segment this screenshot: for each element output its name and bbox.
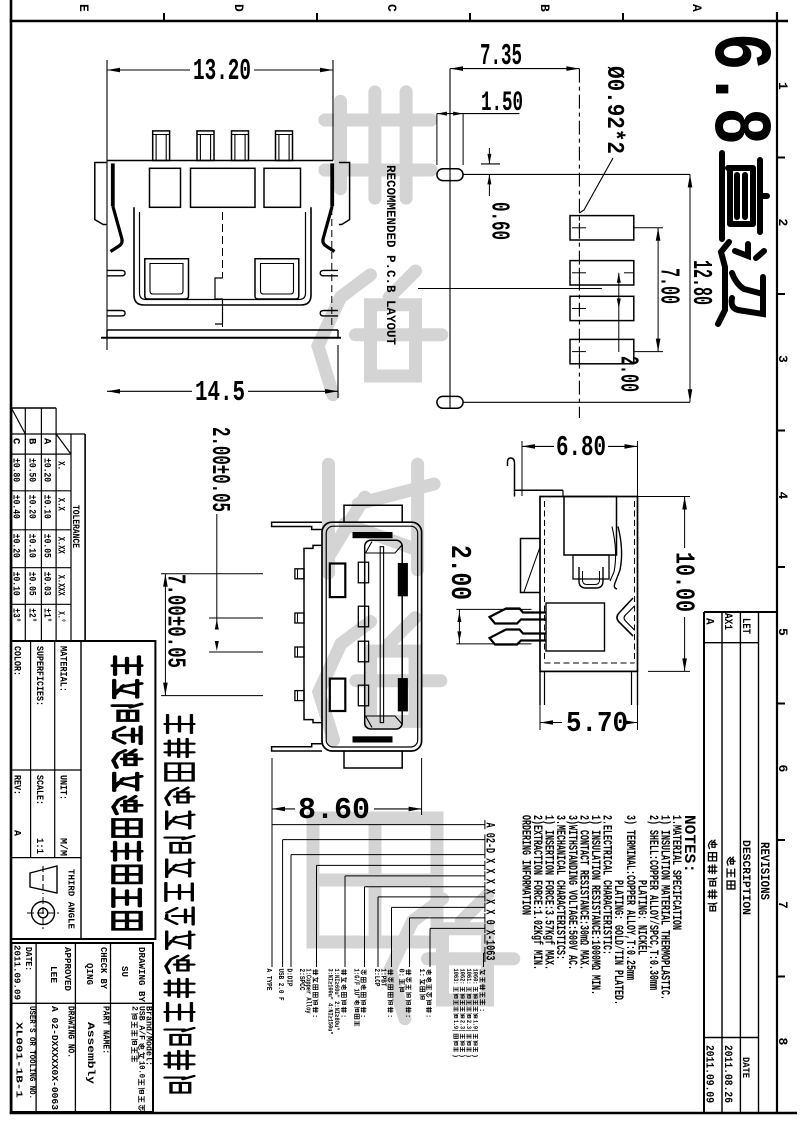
- svg-text:5.70: 5.70: [566, 707, 628, 740]
- svg-text:3:NI≥100u" 4:NI≥150u": 3:NI≥100u" 4:NI≥150u": [327, 969, 334, 1035]
- svg-text:C: C: [10, 438, 22, 445]
- svg-text:LET: LET: [739, 618, 751, 634]
- svg-text:E: E: [76, 4, 91, 12]
- svg-text:DATE:: DATE:: [23, 947, 34, 971]
- svg-text:A: A: [689, 4, 704, 12]
- svg-text:SCALE:: SCALE:: [33, 775, 44, 805]
- svg-text:±3°: ±3°: [10, 608, 22, 622]
- zone ticks right: [777, 157, 785, 159]
- tolerance table grid: [11, 408, 85, 641]
- front view dim 13.20: [107, 69, 190, 71]
- svg-text:2011.08.26: 2011.08.26: [721, 1045, 733, 1103]
- svg-text:DRAWING NO.: DRAWING NO.: [66, 1006, 77, 1058]
- revisions table frame: [704, 611, 777, 613]
- svg-text:CHECK BY: CHECK BY: [98, 947, 109, 989]
- svg-text:2.00: 2.00: [614, 356, 644, 392]
- top view tongue: [365, 540, 403, 729]
- front view thick left edge latch spring: [111, 163, 115, 206]
- svg-text:Ø0.92*2: Ø0.92*2: [600, 66, 627, 154]
- front view bottom bar: [107, 329, 338, 331]
- svg-text:DATE: DATE: [739, 1057, 751, 1078]
- svg-text:±0.10: ±0.10: [26, 534, 37, 558]
- svg-text:±1°: ±1°: [41, 608, 53, 622]
- svg-text:A: A: [11, 830, 22, 836]
- revisions header divider: [704, 642, 759, 644]
- ordering label duanzi diandu: [361, 970, 366, 975]
- front view thick right edge latch spring: [330, 163, 334, 206]
- svg-text:TOLERANCE: TOLERANCE: [69, 505, 80, 548]
- front view top band windows: [150, 168, 181, 207]
- svg-text:1:G/F 1U": 1:G/F 1U": [352, 969, 360, 999]
- title glyph zhi: [722, 153, 767, 239]
- svg-text:2011.09.09: 2011.09.09: [703, 1045, 715, 1103]
- side view lower block: [546, 603, 605, 651]
- revisions date divider: [704, 1037, 759, 1039]
- top view tongue ridge: [380, 547, 383, 723]
- front view contact window right: [255, 259, 299, 299]
- svg-text:USER'S OR TOOLING NO.: USER'S OR TOOLING NO.: [27, 1006, 37, 1099]
- side view dim 6.80: [522, 445, 554, 447]
- pcb line from oval top: [463, 173, 690, 175]
- revisions desc chongxin xiuding tumian: [708, 840, 716, 848]
- svg-text:2.00: 2.00: [443, 545, 476, 600]
- svg-text:±0.20: ±0.20: [26, 495, 37, 519]
- top view left contact windows: [330, 564, 346, 598]
- ordering label jiaoxin yanse: [406, 970, 411, 975]
- svg-text:2:SPCC: 2:SPCC: [297, 969, 305, 991]
- svg-text:PART NAME:: PART NAME:: [101, 1006, 112, 1054]
- svg-text:12.80: 12.80: [685, 260, 715, 305]
- ordering underlines: [484, 820, 486, 829]
- svg-text:X.X: X.X: [55, 498, 66, 511]
- svg-text:XL001-1B-1: XL001-1B-1: [14, 1022, 25, 1098]
- top view right black contacts: [398, 564, 407, 596]
- pcb dashed centerline: [578, 69, 580, 418]
- front view contact window left: [145, 259, 189, 299]
- svg-text:6.8: 6.8: [691, 33, 785, 145]
- svg-text::: :: [310, 1014, 318, 1018]
- side view body outline: [540, 497, 638, 672]
- svg-text:2: 2: [775, 219, 790, 227]
- front view dim 14.5: [107, 390, 192, 392]
- side view lower spring hook: [617, 598, 633, 636]
- svg-text:X.: X.: [55, 461, 66, 470]
- svg-text:A 02-DXXXXX0X-0063: A 02-DXXXXX0X-0063: [49, 1006, 60, 1110]
- svg-text:±0.10: ±0.10: [41, 495, 52, 519]
- svg-text:1:1: 1:1: [33, 838, 44, 854]
- svg-text:8: 8: [775, 1038, 790, 1046]
- side view hidden dashed cavity: [544, 501, 546, 663]
- svg-text:A: A: [41, 438, 53, 445]
- svg-text:REV:: REV:: [11, 775, 22, 795]
- svg-text:AX1: AX1: [721, 613, 733, 630]
- pcb dim 1.50: [437, 113, 520, 115]
- svg-text:C: C: [384, 4, 399, 12]
- svg-text:10.00: 10.00: [668, 552, 698, 612]
- border bottom: [10, 1112, 797, 1115]
- svg-text::: :: [424, 1014, 432, 1018]
- top view crimp bar lower: [353, 737, 392, 742]
- top view pin stubs: [295, 569, 304, 579]
- top view bent leg upper: [272, 522, 323, 529]
- front view extension lines: [106, 60, 108, 350]
- pcb oval hole bottom: [437, 396, 463, 408]
- company name shenzhen xingbaochuang: [113, 657, 142, 675]
- svg-text:A: A: [703, 618, 715, 625]
- svg-text:X.°: X.°: [55, 611, 67, 622]
- svg-text:14.5: 14.5: [195, 376, 245, 409]
- title block bottom box: [12, 943, 154, 1112]
- svg-text:A TYPE: A TYPE: [264, 969, 272, 991]
- svg-text:DESCRIPTION: DESCRIPTION: [739, 840, 751, 915]
- side view diagonal spring: [614, 527, 621, 590]
- title glyph bian: [718, 242, 764, 324]
- svg-text:1063:: 1063:: [452, 969, 459, 985]
- svg-text:1:: 1:: [417, 969, 425, 977]
- front view pins: [153, 131, 170, 161]
- top view hold-down tab lower: [344, 751, 402, 768]
- pcb oval hole top: [437, 169, 463, 181]
- svg-text::: :: [385, 1014, 393, 1018]
- zone ticks top: [163, 13, 165, 21]
- svg-text:B: B: [26, 438, 38, 445]
- svg-text:SU: SU: [119, 966, 130, 977]
- third angle cone symbol: [30, 866, 57, 893]
- pcb pads: [570, 216, 634, 240]
- svg-text:D: D: [231, 4, 246, 12]
- side view dim 5.70: [539, 705, 541, 730]
- svg-text:±0.03: ±0.03: [41, 572, 52, 596]
- svg-text:±0.10: ±0.10: [10, 572, 21, 596]
- svg-text:4: 4: [775, 492, 790, 500]
- svg-text:B: B: [537, 4, 552, 12]
- top view outer shell: [322, 522, 422, 751]
- svg-text:7.00±0.05: 7.00±0.05: [161, 574, 191, 668]
- svg-text:3: 3: [775, 355, 790, 363]
- svg-text:): ): [452, 1054, 459, 1058]
- svg-text:REVISIONS: REVISIONS: [757, 842, 771, 900]
- side view hold-down tab: [508, 458, 541, 490]
- svg-text::: :: [403, 1014, 411, 1018]
- top view plastic body: [304, 545, 322, 722]
- svg-text:7.00: 7.00: [653, 268, 683, 304]
- svg-text:7.35: 7.35: [480, 39, 522, 74]
- svg-text:6.80: 6.80: [556, 431, 606, 464]
- pcb dim 12.80: [689, 174, 691, 402]
- svg-text:COLOR:: COLOR:: [11, 646, 22, 676]
- side view legs below: [539, 671, 541, 705]
- top view dim 8.60: [271, 758, 273, 967]
- svg-text:±0.50: ±0.50: [26, 458, 37, 482]
- svg-text:USB 2.0 F: USB 2.0 F: [276, 969, 284, 1001]
- svg-text:1.9(: 1.9(: [452, 1020, 459, 1032]
- top view tongue chamfer bottom: [366, 716, 403, 728]
- border left: [10, 0, 13, 1114]
- svg-text:10.0: 10.0: [137, 1061, 146, 1078]
- side view mid block: [573, 555, 609, 579]
- front view cavity U tongue holder: [134, 207, 311, 305]
- svg-text:±0.20: ±0.20: [41, 458, 52, 482]
- ordering label waike diandu: [341, 970, 346, 975]
- front view side tabs: [107, 270, 125, 275]
- pcb line from oval bottom: [463, 401, 690, 403]
- top view hold-down tab upper: [344, 505, 402, 522]
- top view dim 7.00 pm 0.05: [161, 573, 263, 575]
- front view right dashed hidden line: [331, 175, 333, 329]
- svg-text:2: 2: [130, 1006, 139, 1011]
- ordering label waike caizhi: [313, 970, 318, 975]
- third angle circle symbol: [32, 902, 55, 925]
- svg-text:UNIT:: UNIT:: [57, 775, 68, 800]
- svg-text:DRAWING BY: DRAWING BY: [136, 947, 147, 1002]
- svg-text:±0.05: ±0.05: [41, 534, 52, 558]
- svg-text:2:LCP: 2:LCP: [372, 969, 380, 987]
- svg-text:X.XX: X.XX: [55, 537, 66, 554]
- revisions desc shizuoban: [727, 857, 735, 865]
- side view top inner block: [564, 497, 617, 556]
- front view center dashed line break zigzag: [222, 212, 224, 278]
- pcb dim 7.00: [634, 227, 663, 229]
- side view fork dim 2.00: [456, 608, 531, 610]
- top view bent leg lower: [272, 744, 323, 751]
- svg-text:6: 6: [775, 765, 790, 773]
- side view U contact: [579, 567, 603, 588]
- svg-text:7: 7: [775, 901, 790, 909]
- top view tongue chamfer top: [366, 542, 403, 554]
- svg-text:8.60: 8.60: [298, 793, 370, 828]
- svg-text:0.60: 0.60: [485, 202, 515, 240]
- top view tongue contact bumps: [358, 562, 368, 583]
- ordering label jiegou queren: [480, 970, 485, 975]
- svg-text:2.00±0.05: 2.00±0.05: [205, 427, 235, 512]
- svg-text:±2°: ±2°: [26, 608, 38, 622]
- svg-text:M/M: M/M: [57, 838, 69, 856]
- svg-text:±0.40: ±0.40: [10, 495, 21, 519]
- pcb dim 7.35: [450, 68, 579, 70]
- svg-text:±0.05: ±0.05: [26, 572, 37, 596]
- pcb long center row line: [418, 288, 602, 290]
- svg-text:ORDERING INFORMATION: ORDERING INFORMATION: [518, 815, 532, 915]
- side view dim 10.00: [638, 496, 691, 498]
- svg-text:QING: QING: [84, 963, 95, 985]
- svg-text:±0.20: ±0.20: [10, 534, 21, 558]
- svg-text:D:DIP: D:DIP: [285, 969, 293, 987]
- pcb dim 0.60: [481, 163, 500, 165]
- svg-text:SUPERFICIES:: SUPERFICIES:: [33, 646, 44, 706]
- svg-text:2011.09.09: 2011.09.09: [12, 945, 23, 1000]
- pcb vertical line through ovals: [449, 69, 451, 409]
- svg-text:USB A/F: USB A/F: [137, 1006, 146, 1040]
- ordering cascade leaders: [272, 824, 485, 826]
- svg-text:0:: 0:: [397, 969, 405, 977]
- border right: [776, 12, 778, 1114]
- svg-text:THIRD ANGLE: THIRD ANGLE: [66, 869, 77, 929]
- watermark glyphs light gray: [313, 92, 514, 1019]
- svg-text:5: 5: [775, 628, 790, 636]
- side view plastic back block: [521, 539, 541, 593]
- svg-text:MATERIAL:: MATERIAL:: [57, 646, 68, 692]
- svg-text:13.20: 13.20: [193, 54, 251, 89]
- front view right wing: [339, 163, 350, 225]
- svg-text:±0.80: ±0.80: [10, 458, 21, 482]
- pcb dim 2.00: [618, 273, 620, 352]
- ordering label jiaoxin caizhi: [388, 970, 393, 975]
- side view fish fork leg: [490, 609, 546, 624]
- svg-text::: :: [477, 1008, 485, 1012]
- border top: [10, 20, 788, 23]
- title block company box: [11, 641, 155, 939]
- svg-text:APPROVED: APPROVED: [62, 947, 73, 991]
- tolerance diagonal marks: [11, 408, 25, 434]
- front view shell top edge: [107, 160, 333, 162]
- svg-text:Assembly: Assembly: [84, 1022, 96, 1085]
- svg-text:X.XXX: X.XXX: [55, 575, 66, 596]
- svg-text:RECOMMENDED P.C.B LAYOUT: RECOMMENDED P.C.B LAYOUT: [383, 165, 398, 345]
- svg-text:1.50: 1.50: [481, 88, 523, 119]
- ordering label baozhuang fangshi: [427, 970, 432, 975]
- front view left wing: [95, 163, 107, 225]
- svg-text:LEE: LEE: [48, 966, 59, 983]
- top view crimp bar upper: [353, 533, 392, 538]
- disclaimer text citu zhizhi: [165, 715, 194, 733]
